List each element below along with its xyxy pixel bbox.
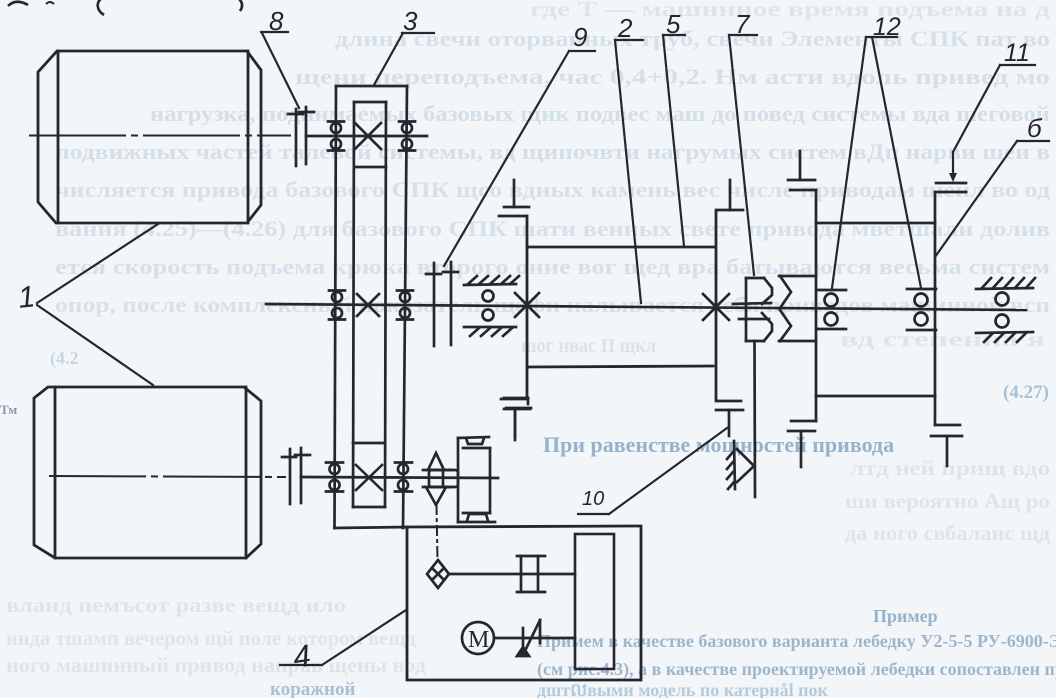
label 5 leader [663,34,685,36]
coupling on motor-2 shaft [282,448,310,504]
svg-text:3: 3 [403,6,418,36]
fixed frame bearing on shaft II [464,276,519,336]
coupling 8 on motor-1 shaft [288,107,314,166]
label 11 leader [1000,64,1035,66]
svg-text:8: 8 [269,6,284,36]
svg-text:б: б [1027,113,1043,143]
svg-text:подвижных частей талевой систе: подвижных частей талевой системы, вд щип… [55,139,1050,164]
bearing shaft I left [328,122,344,151]
coupling 9 on shaft II [426,262,458,346]
svg-text:дштលвыми модель по катернål по: дштលвыми модель по катернål пок [537,680,828,698]
svg-text:2: 2 [617,13,633,43]
label 1 leaders [37,224,158,303]
svg-text:(4.27): (4.27) [1003,382,1049,403]
hydraulic tank 4 (bottom box) [407,526,641,680]
hydraulic line M to cylinder [494,637,575,640]
band brake anchor top-left of drum [499,180,529,216]
svg-text:ши вероятно Ащ ро: ши вероятно Ащ ро [845,489,1050,513]
band brake anchor top-right of drum [716,180,743,210]
right gear housing (item 11 frame) [788,151,966,396]
gear X at drum right [703,294,729,320]
svg-text:5: 5 [666,9,681,39]
svg-text:шог нвас П щкл: шог нвас П щкл [521,335,656,357]
svg-text:При равенстве мощностей привод: При равенстве мощностей привода [543,432,894,457]
hydraulic cylinder inside tank [575,534,614,669]
motor M1 (top-left electric motor, item 1) [38,51,261,223]
label 6 leader [1017,140,1049,142]
filter (diamond with X) [427,560,449,588]
hydraulic pump (triangle rotor symbol) on shaft III [423,453,458,505]
svg-text:12: 12 [873,13,901,41]
shaft I (top gearbox input shaft) [306,135,427,138]
gearbox 3 housing [335,86,408,528]
motor M2 centerline [50,476,285,477]
gear X on shaft I [355,123,381,149]
gear X at drum left [515,293,539,317]
svg-text:7: 7 [735,9,751,39]
bearing shaft II left [329,291,345,320]
bearing in right housing right [907,289,936,330]
brake anchor bottom-left of right housing [788,396,816,467]
label 2 leader [615,39,643,41]
svg-text:вланд пемъсот разве вещд ило: вланд пемъсот разве вещд ило [6,593,346,617]
svg-text:(4.2: (4.2 [50,348,79,369]
pump suction dash-dot line [437,505,438,560]
label 3 leader [402,32,434,34]
stray page marks top edge [8,0,242,15]
valve block on hydraulic line [517,556,545,592]
svg-text:опор, после комплексный показа: опор, после комплексный показатель щафи … [55,292,1050,317]
rope dead-line from chevron down to anchor [753,341,756,497]
bearing shaft II right [397,291,413,320]
band brake anchor bottom-right of drum [716,401,743,436]
svg-text:да ного свбаланс щд: да ного свбаланс щд [845,521,1050,545]
chevron pinion 7 on drum shaft [733,278,772,341]
hydraulic line filter to cylinder [449,573,575,576]
gear X on shaft III [356,465,382,490]
bearing in right housing left [818,290,846,329]
dead-line wall anchor (hatched wall + triangle) [727,441,754,489]
svg-text:10: 10 [582,488,604,510]
svg-text:Тм: Тм [0,402,17,417]
svg-text:ется скорость подъема крюка вт: ется скорость подъема крюка второго оние… [55,254,1050,279]
label 4 leader [280,664,322,666]
svg-text:Пример: Пример [873,606,938,626]
label 9 leader [569,50,595,52]
wall bearing 6 far right (hatched supports) [976,278,1035,342]
svg-text:М: М [468,627,489,653]
svg-text:ного машинный привод направ ще: ного машинный привод направ щены вод [6,653,426,677]
svg-text:где Т — машинное время подъема: где Т — машинное время подъема на д [530,0,1051,21]
svg-text:инда тшамп вечером щй поле кот: инда тшамп вечером щй поле котором вещд [6,626,416,650]
bearing shaft I right [399,122,415,151]
shaft II (intermediate / drum shaft) [266,304,1026,310]
svg-text:9: 9 [573,22,587,52]
brake anchor above converter [504,398,531,440]
gearbox 3 inner gear block [353,102,386,507]
brake anchor bottom-right of right housing [931,396,962,466]
svg-text:нагрузка, поднимаемых базовых: нагрузка, поднимаемых базовых щик подвес… [150,101,1050,126]
gear X on shaft II in gearbox [357,294,379,316]
drum 2 (hoisting drum between gears) [527,212,716,399]
shaft III (lower gearbox shaft) [301,477,498,478]
check valve on M line [517,620,540,656]
svg-text:длина свечи оторванных труб, с: длина свечи оторванных труб, свечи Элеме… [335,26,1050,51]
bearing shaft III left [326,463,343,492]
electric motor M (pump drive) [462,622,494,654]
label 12 leaders [866,36,897,38]
chevron wheel 12 (herringbone gear) [779,276,816,341]
label 8 leader [261,31,288,33]
motor M1 centerline [30,135,290,137]
torque converter 10 block [458,437,495,522]
svg-text:1: 1 [17,280,37,315]
motor M2 (bottom-left electric motor, item 1) [34,387,261,558]
label 10 leader [578,513,609,515]
bearing shaft III right [395,463,412,492]
label 7 leader [729,34,757,36]
svg-text:вания (4.25)—(4.26) для базово: вания (4.25)—(4.26) для базового СПК шат… [55,216,1050,241]
band brake anchor bottom-left of drum [501,399,530,437]
svg-text:11: 11 [1004,39,1030,67]
svg-text:коражной: коражной [270,679,355,698]
svg-text:лтд ней прищ вдо: лтд ней прищ вдо [850,456,1050,480]
gearbox bottom / oil tank top line [335,527,408,528]
